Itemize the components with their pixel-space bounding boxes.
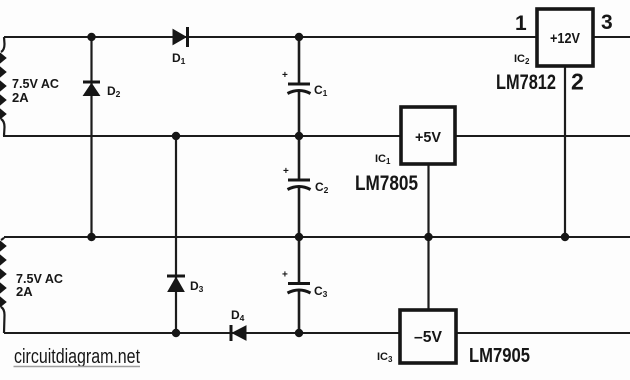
voltage regulator IC2 LM7812 [537,9,593,66]
wire: IC1 +5V output to right edge [455,135,630,137]
wire: IC1 pin2 down through ground rail to IC3 top [427,164,429,310]
junction dot: D3 branch on rail2 [172,132,180,140]
wire: C1 bottom to rail2 [298,92,301,136]
svg-text:D3: D3 [190,279,204,294]
voltage regulator IC1 LM7805 [401,107,455,164]
svg-text:D4: D4 [231,308,245,323]
junction dot: cap chain on rail2 [295,132,303,140]
capacitor C2 (polarized) [288,180,311,190]
wire: IC3 -5V output to right edge [456,332,630,334]
transformer winding T1 7.5V AC 2A [0,37,6,136]
svg-text:+5V: +5V [415,129,441,146]
svg-text:+: + [283,166,289,177]
svg-text:C2: C2 [315,180,329,195]
svg-text:LM7905: LM7905 [469,345,530,367]
wire: top rail y=37 from transformer T1 top to IC2 pin 1 [4,36,537,38]
diode D4 (pointing left, on bottom rail) [231,325,246,341]
junction dot: cap chain on ground rail [295,233,303,241]
wire: ground rail y=237 from transformer T2 top to right edge [4,236,630,238]
wire: IC2 pin 2 down to ground rail x=565 [564,66,566,237]
svg-text:+12V: +12V [550,30,580,47]
wire: bottom rail y=333 from transformer T2 bottom to IC3 input [4,332,400,334]
svg-text:+: + [282,70,288,81]
transformer winding T2 7.5V AC 2A [0,237,6,333]
svg-text:D2: D2 [107,84,121,99]
svg-text:LM7805: LM7805 [355,172,418,195]
svg-text:+: + [282,270,288,281]
wire: second rail y=136 from transformer T1 bottom to IC1 pin 1 [4,133,401,136]
svg-text:IC1: IC1 [375,153,391,166]
diode D2 (cathode up) [83,82,100,96]
junction dot: D3 bottom on bottom rail [172,329,180,337]
svg-text:2: 2 [571,69,584,95]
diode D3 (cathode up) [167,276,185,292]
wire: IC2 pin 3 output to right edge [593,36,630,38]
svg-text:D1: D1 [172,51,186,66]
svg-text:IC3: IC3 [377,351,393,364]
junction dot: regulator common on ground rail [424,233,432,241]
svg-text:2A: 2A [16,284,33,299]
capacitor C1 (polarized) [288,84,311,94]
svg-text:IC2: IC2 [514,53,530,66]
wire: filter capacitor chain x=299 top rail to C1 [298,37,301,83]
svg-text:3: 3 [601,11,613,34]
svg-text:–5V: –5V [414,329,442,346]
wire: C2 bottom to ground rail [298,188,301,237]
svg-text:C1: C1 [314,83,328,98]
wire: ground rail to C3 [298,237,301,283]
svg-text:2A: 2A [12,90,29,105]
capacitor C3 (polarized) [288,284,311,294]
wire: vertical from rail2 through D3 to bottom rail x=176 [175,136,177,333]
junction dot: D2 bottom on ground rail [87,233,95,241]
wire: rail2 to C2 [298,136,301,179]
wire: vertical from top rail through D2 to ground rail x=91.5 [90,37,92,237]
watermark: circuitdiagram.net [14,346,141,368]
voltage regulator IC3 LM7905 [400,310,456,363]
svg-text:circuitdiagram.net: circuitdiagram.net [14,346,140,368]
svg-text:LM7812: LM7812 [496,71,556,94]
junction dot: IC2 pin2 on ground rail [561,233,569,241]
svg-text:C3: C3 [314,284,328,299]
diode D1 (pointing right, on top rail) [173,27,188,47]
junction dot: D2 top on rail1 [87,33,95,41]
wire: C3 bottom to bottom rail [298,292,301,334]
junction dot: C1 top on rail1 [295,33,303,41]
junction dot: C3 bottom on bottom rail [295,329,303,337]
svg-text:7.5V AC: 7.5V AC [12,76,60,91]
svg-text:1: 1 [515,12,527,35]
